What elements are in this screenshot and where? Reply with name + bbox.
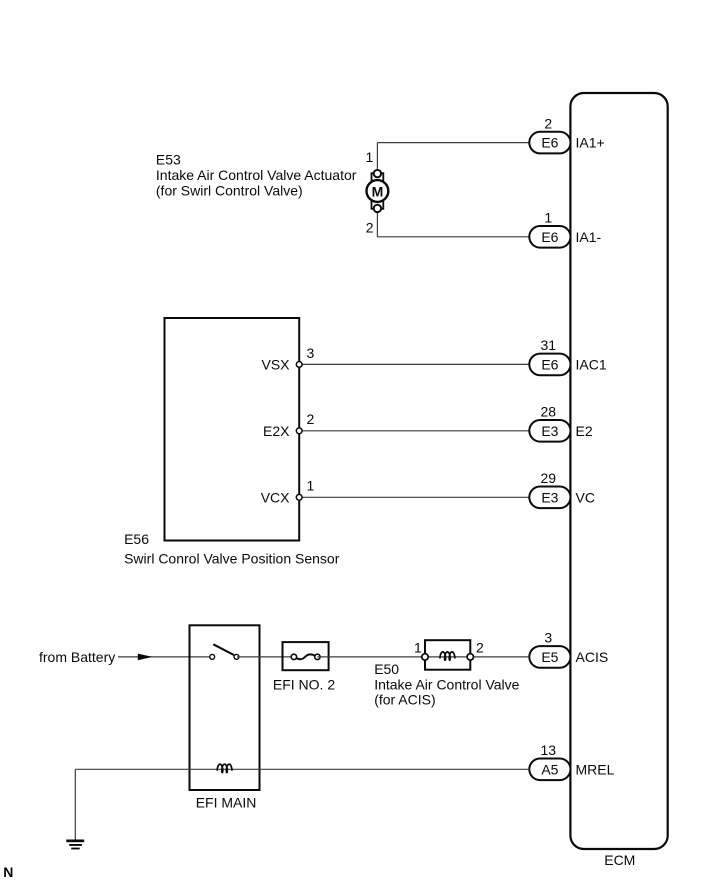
svg-text:EFI NO. 2: EFI NO. 2 (273, 677, 335, 693)
svg-text:E5: E5 (541, 649, 558, 665)
svg-text:N: N (3, 864, 13, 880)
svg-text:E6: E6 (541, 357, 558, 373)
svg-text:E3: E3 (541, 489, 558, 505)
svg-text:E3: E3 (541, 423, 558, 439)
svg-text:IA1-: IA1- (576, 229, 602, 245)
svg-text:Intake Air Control Valve: Intake Air Control Valve (374, 676, 519, 692)
svg-text:E2: E2 (576, 423, 593, 439)
svg-text:E6: E6 (541, 229, 558, 245)
svg-text:2: 2 (476, 640, 484, 656)
svg-text:ACIS: ACIS (576, 649, 609, 665)
svg-text:VC: VC (576, 489, 595, 505)
svg-text:IA1+: IA1+ (576, 135, 605, 151)
svg-text:A5: A5 (541, 761, 558, 777)
svg-text:E56: E56 (124, 531, 149, 547)
svg-text:ECM: ECM (604, 852, 635, 868)
svg-text:IAC1: IAC1 (576, 357, 607, 373)
svg-text:E6: E6 (541, 135, 558, 151)
svg-text:2: 2 (307, 411, 315, 427)
svg-text:31: 31 (541, 337, 557, 353)
svg-text:M: M (372, 183, 384, 199)
svg-text:2: 2 (366, 220, 374, 236)
svg-text:28: 28 (541, 404, 557, 420)
svg-text:1: 1 (414, 640, 422, 656)
svg-text:E53: E53 (156, 151, 181, 167)
svg-text:29: 29 (541, 470, 557, 486)
svg-text:(for Swirl Control Valve): (for Swirl Control Valve) (156, 183, 303, 199)
svg-text:1: 1 (366, 149, 374, 165)
svg-text:3: 3 (544, 630, 552, 646)
svg-text:1: 1 (307, 478, 315, 494)
svg-text:VSX: VSX (261, 357, 290, 373)
svg-text:2: 2 (544, 115, 552, 131)
svg-text:(for ACIS): (for ACIS) (374, 692, 435, 708)
svg-text:E2X: E2X (263, 423, 290, 439)
svg-text:13: 13 (541, 742, 557, 758)
svg-text:Swirl Conrol Valve Position Se: Swirl Conrol Valve Position Sensor (124, 550, 340, 566)
svg-text:MREL: MREL (576, 761, 615, 777)
svg-text:E50: E50 (374, 661, 399, 677)
svg-text:Intake Air Control Valve Actua: Intake Air Control Valve Actuator (156, 167, 357, 183)
svg-text:3: 3 (307, 345, 315, 361)
svg-text:EFI MAIN: EFI MAIN (196, 795, 257, 811)
svg-text:VCX: VCX (261, 489, 290, 505)
svg-text:1: 1 (544, 210, 552, 226)
svg-text:from Battery: from Battery (39, 649, 115, 665)
